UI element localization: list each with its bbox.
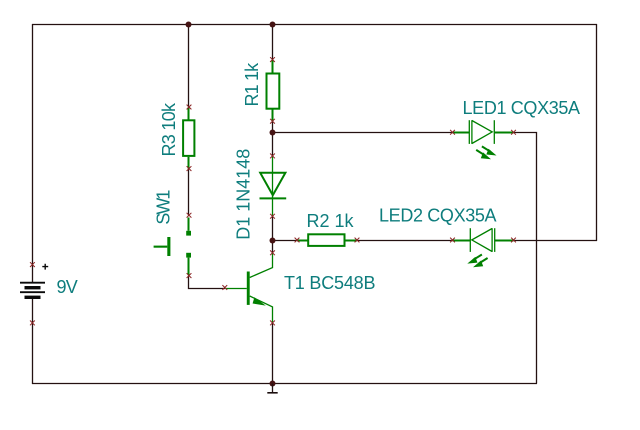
svg-text:D1 1N4148: D1 1N4148 <box>234 149 254 240</box>
pin x-mark R1 top <box>270 57 275 62</box>
pin x-mark D1 top <box>270 154 275 159</box>
node junction top rail / R3 <box>186 22 192 28</box>
pin x-mark R3 bottom <box>187 166 192 171</box>
pin x-mark battery - <box>30 321 35 326</box>
wire top rail to R3 <box>188 24 190 108</box>
svg-text:SW1: SW1 <box>154 190 174 225</box>
wire left side lower (battery minus to bottom rail) <box>32 299 34 384</box>
pin x-mark R2 right <box>355 238 360 243</box>
resistor R3 <box>183 108 194 169</box>
svg-text:R2 1k: R2 1k <box>307 211 355 231</box>
wire bottom rail <box>32 383 537 385</box>
node B junction D1/R2/collector <box>270 238 276 244</box>
wire top rail <box>32 24 597 26</box>
node junction top rail / R1 <box>270 22 276 28</box>
pin x-mark SW1 top <box>187 213 192 218</box>
resistor R1 <box>267 60 280 121</box>
wire node B to T1 collector <box>272 240 274 254</box>
wire LED2 right to right rail <box>514 240 598 242</box>
ground <box>267 384 277 393</box>
svg-text:9V: 9V <box>57 277 78 297</box>
svg-text:T1 BC548B: T1 BC548B <box>284 273 375 293</box>
wire node A to LED1 <box>273 132 453 134</box>
wire node A to D1 <box>272 133 274 157</box>
wire SW1 to T1 base <box>189 276 226 289</box>
wire R3 to SW1 <box>188 169 190 216</box>
wire D1 to node B <box>272 217 274 241</box>
svg-text:R3 10k: R3 10k <box>159 102 179 157</box>
diode D1 <box>260 156 287 216</box>
pin x-mark SW1 bottom <box>187 273 192 278</box>
pin x-mark R2 left <box>295 238 300 243</box>
node A junction R1/D1/LED1 <box>270 130 276 136</box>
pin x-mark LED1 left <box>450 130 455 135</box>
pin x-mark battery + <box>30 262 35 267</box>
svg-text:LED1 CQX35A: LED1 CQX35A <box>463 98 581 118</box>
LED1 <box>453 120 514 159</box>
pin x-mark D1 bottom <box>270 214 275 219</box>
pin x-mark T1 collector <box>270 250 275 255</box>
wire LED1 right down to bottom rail <box>514 133 537 384</box>
pin x-mark LED2 right <box>511 238 516 243</box>
LED2 <box>453 228 514 267</box>
node junction emitter / bottom rail <box>270 381 276 387</box>
pin x-mark LED2 left <box>450 238 455 243</box>
wire R1 to node A <box>272 121 274 132</box>
svg-text:R1 1k: R1 1k <box>242 62 262 107</box>
pin x-mark LED1 right <box>511 130 516 135</box>
pin x-mark T1 emitter <box>270 321 275 326</box>
wire T1 emitter to bottom rail <box>272 323 274 384</box>
battery BT1 9V <box>20 264 48 299</box>
pin x-mark T1 base <box>222 285 227 290</box>
wire top rail to R1 <box>272 24 274 60</box>
svg-text:LED2 CQX35A: LED2 CQX35A <box>379 206 497 226</box>
pin x-mark R1 bottom <box>270 119 275 124</box>
transistor T1 <box>225 254 272 323</box>
wire right side from top rail down to LED2 <box>596 24 598 241</box>
wire R2 to LED2 <box>357 240 453 242</box>
wire left side upper (battery plus to top rail) <box>32 24 34 283</box>
switch SW1 <box>154 218 191 276</box>
wire node B to R2 <box>273 240 298 242</box>
pin x-mark R3 top <box>187 105 192 110</box>
resistor R2 <box>297 234 357 246</box>
